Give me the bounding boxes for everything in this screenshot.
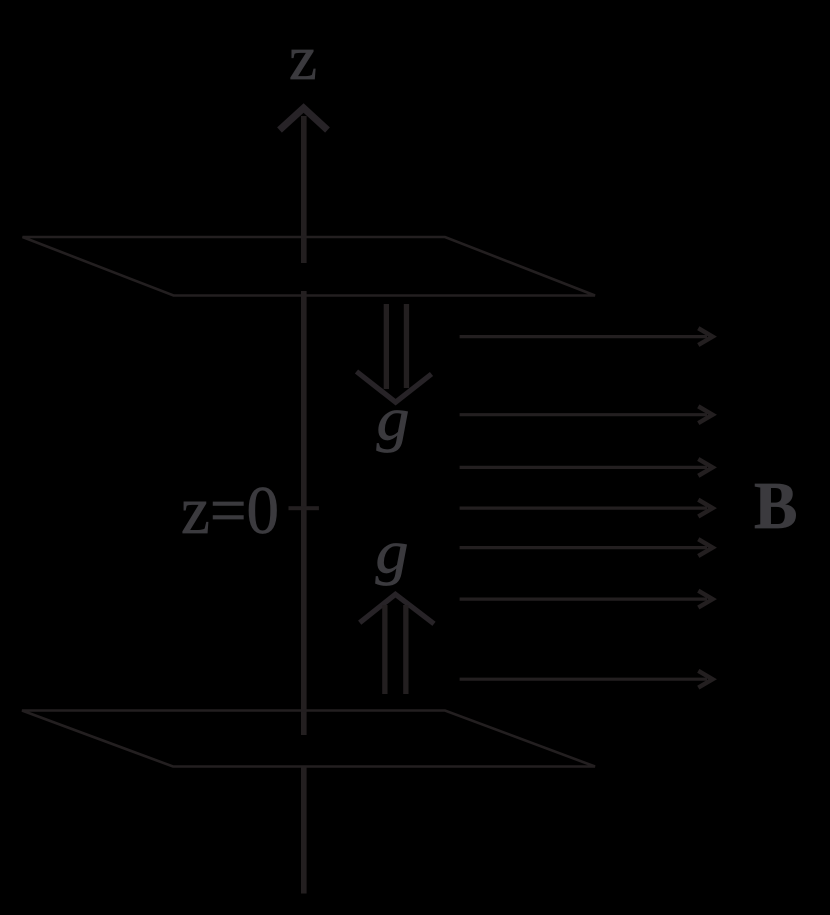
- wire B field line 6: [460, 591, 713, 608]
- node z=0 tick: [289, 506, 319, 510]
- wire top plate parallelogram: [23, 237, 596, 296]
- svg-text:B: B: [754, 469, 798, 543]
- wire gravity down double-arrow head: [357, 372, 432, 403]
- svg-text:g: g: [377, 387, 410, 454]
- wire z-axis shaft lower: [301, 766, 307, 894]
- wire z-axis shaft upper: [301, 116, 307, 263]
- wire bottom plate parallelogram: [22, 711, 595, 767]
- wire gravity up double-arrow head: [360, 594, 434, 624]
- wire B field line 2: [460, 406, 713, 423]
- wire gravity up double-arrow shafts: [382, 605, 387, 694]
- svg-text:z: z: [289, 22, 317, 93]
- wire B field line 3: [460, 459, 713, 476]
- wire B field line 7: [460, 671, 713, 688]
- wire B field line 5: [460, 539, 713, 556]
- wire B field line 1: [460, 328, 713, 345]
- wire z-axis arrowhead: [280, 108, 328, 130]
- svg-text:g: g: [376, 520, 409, 587]
- wire B field line 4: [460, 500, 713, 517]
- wire z-axis shaft middle: [301, 291, 307, 735]
- wire gravity down double-arrow shafts: [384, 304, 389, 389]
- svg-text:z=0: z=0: [181, 472, 279, 548]
